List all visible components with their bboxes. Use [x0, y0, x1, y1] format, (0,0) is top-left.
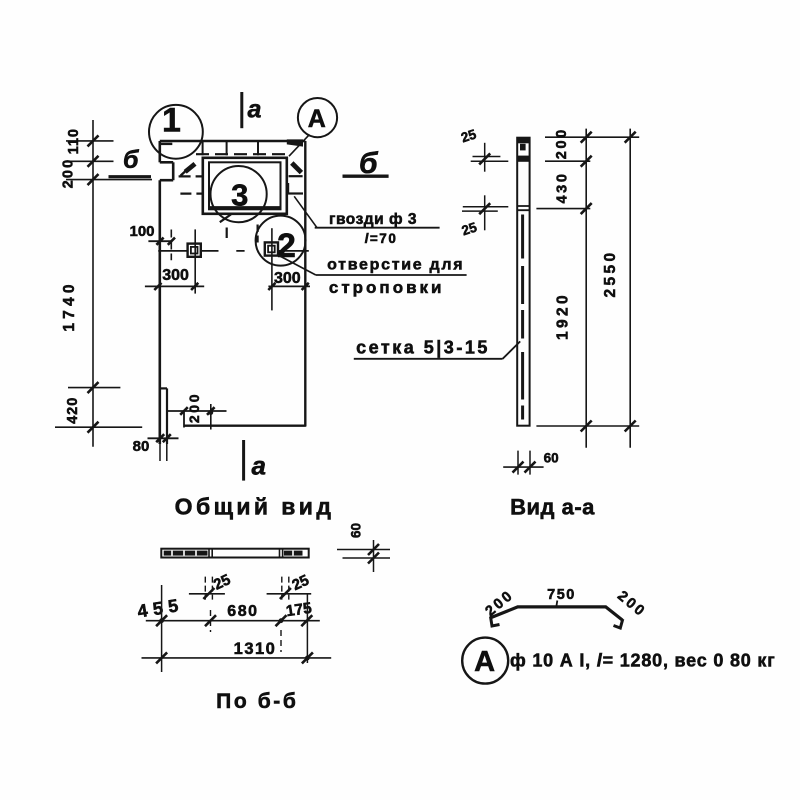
centerline of holes: [158, 250, 309, 252]
duct dashed left y176: [179, 175, 203, 177]
side bar top fill: [517, 138, 530, 144]
panel left edge lower: [159, 180, 162, 444]
right chain ticks: [581, 132, 636, 432]
bb dim 25 left line: [189, 593, 225, 595]
svg-text:отверстие для: отверстие для: [327, 257, 464, 274]
side bar band fill: [517, 156, 530, 162]
svg-text:Вид а-а: Вид а-а: [510, 495, 595, 520]
svg-text:l=70: l=70: [365, 231, 398, 246]
dim 25 no2 vertical: [484, 195, 486, 230]
mesh label underline: [354, 358, 503, 360]
svg-text:80: 80: [133, 438, 150, 455]
nails label underline: [315, 227, 440, 229]
bb ext right long: [306, 593, 308, 663]
right ext y137: [545, 136, 639, 138]
bb left mesh slits: [172, 551, 196, 556]
bb dim 60 ticks: [368, 544, 379, 564]
right dim line 2: [629, 129, 631, 448]
dim 300 left line: [145, 285, 204, 287]
duct dash right y176: [289, 175, 303, 177]
ext top edge: [66, 140, 114, 142]
dim 60 line: [503, 466, 543, 468]
svg-text:25: 25: [289, 572, 311, 594]
bb bar outline: [161, 549, 308, 558]
tab right edge: [166, 388, 168, 444]
left chain ticks: [88, 135, 99, 432]
svg-text:строповки: строповки: [329, 278, 445, 297]
section b right underline: [343, 174, 389, 177]
bb ext 281 dashed: [280, 630, 282, 652]
svg-text:60: 60: [544, 451, 559, 466]
bb dim line 2 ticks: [156, 652, 313, 663]
duct dashed left y193: [180, 193, 202, 195]
lifting hole 2 outer: [265, 242, 278, 255]
lintel tick 2: [226, 142, 228, 156]
dim 200 bottom ext: [210, 404, 212, 430]
opening outer rect: [203, 158, 287, 214]
svg-text:25: 25: [460, 219, 479, 238]
dim 25 no2 ext lines: [462, 207, 508, 211]
lintel dashed line: [196, 153, 289, 155]
svg-text:ф 10 А I, l= 1280, вес 0 80: ф 10 А I, l= 1280, вес 0 80 кг: [510, 651, 776, 671]
position circle A: [462, 638, 508, 684]
bb divider right: [280, 549, 283, 558]
bb right mesh fill: [284, 551, 303, 556]
nail mark bottom-left thin: [220, 214, 231, 222]
dim 25 no1 ext lines: [471, 157, 509, 162]
svg-text:a: a: [248, 96, 262, 124]
dim 60 verticals: [518, 451, 530, 475]
right ext y426: [536, 425, 639, 427]
svg-text:25: 25: [459, 126, 478, 145]
panel bottom step vertical: [183, 411, 185, 428]
notch top: [160, 161, 173, 164]
dim 100 line: [148, 240, 172, 242]
duct vertical dash right: [287, 183, 289, 193]
bent bar body: [490, 607, 622, 620]
svg-text:3: 3: [231, 178, 248, 213]
bb dim line 1: [146, 620, 320, 622]
svg-text:сетка 5|3-15: сетка 5|3-15: [356, 338, 490, 358]
right ext y208: [536, 208, 590, 210]
svg-text:455: 455: [136, 595, 185, 622]
side bar mesh dashes: [521, 215, 524, 420]
svg-text:2550: 2550: [602, 249, 619, 297]
leader from circle A: [289, 135, 309, 157]
svg-text:б: б: [123, 146, 140, 174]
section b left underline: [109, 175, 152, 178]
section a bottom line: [242, 440, 245, 481]
dim 80 oblique ticks: [156, 434, 171, 442]
corner nail patch: [287, 139, 303, 146]
section a top line: [240, 92, 243, 128]
dim 300 right line: [268, 285, 310, 287]
dim 100 ext dashed: [170, 230, 172, 261]
panel right edge: [304, 141, 306, 427]
bb dim line 1 dots: [159, 618, 164, 623]
dim 300 right ticks: [268, 283, 309, 290]
callout circle 1: [149, 105, 203, 159]
svg-text:300: 300: [274, 270, 301, 287]
svg-text:Общий вид: Общий вид: [175, 494, 335, 520]
lifting hole 1 inner: [191, 247, 198, 254]
dim 300 left ticks: [154, 283, 198, 290]
callout circle 2: [256, 216, 306, 266]
svg-text:гвозди ф 3: гвозди ф 3: [329, 211, 417, 228]
dim 60 ticks: [513, 462, 536, 473]
bb right mesh slit: [292, 551, 294, 556]
opening inner bottom thick: [209, 206, 281, 209]
bent bar left hook: [491, 617, 500, 627]
dim 100 ticks: [156, 238, 175, 245]
svg-text:200: 200: [60, 158, 76, 189]
nail mark left thick: [185, 164, 195, 172]
bb dim 25 left tick: [203, 588, 214, 599]
dim 25 no1 vertical: [484, 143, 486, 172]
ext notch top: [66, 160, 114, 162]
right dim line 1: [585, 129, 587, 448]
tab line thin extensions: [160, 444, 167, 461]
bb dim 60 ext lines: [337, 550, 390, 559]
svg-text:А: А: [474, 646, 495, 678]
bb dim 25 right line: [267, 593, 312, 595]
svg-text:А: А: [308, 105, 326, 133]
nail mark right thick: [292, 163, 302, 173]
lintel dash under top edge: [161, 143, 173, 145]
bb dim line 1 ticks: [156, 615, 312, 626]
svg-text:420: 420: [65, 397, 81, 424]
leader nails: [294, 196, 317, 227]
svg-text:100: 100: [129, 223, 154, 240]
side bar divider: [517, 206, 529, 210]
duct dash right y193: [287, 192, 303, 194]
panel bottom edge: [184, 425, 306, 427]
dim 200 bottom dot: [208, 410, 213, 415]
svg-text:1920: 1920: [555, 292, 572, 340]
bb dim 25 right tick: [280, 588, 291, 599]
dim 25 no2 tick: [479, 203, 490, 214]
side bar top inner mark: [520, 144, 526, 151]
panel top edge: [160, 140, 305, 143]
bb left mesh fill: [164, 551, 208, 556]
svg-text:1310: 1310: [234, 640, 277, 658]
svg-text:1: 1: [162, 102, 181, 140]
svg-text:200: 200: [186, 392, 202, 423]
hole 2 centerline vertical: [271, 228, 273, 310]
hole 1 centerline vertical: [194, 229, 196, 293]
bb divider left: [209, 549, 212, 558]
bb ext left long: [161, 585, 163, 672]
lintel tick 1: [202, 142, 204, 156]
dim 200 bottom line: [167, 410, 227, 412]
bb dim 25 right exts: [282, 577, 289, 600]
side bar outline: [517, 138, 529, 426]
svg-text:750: 750: [547, 587, 576, 603]
tab jog: [160, 387, 167, 389]
dim 750 tick: [556, 601, 557, 608]
svg-text:200: 200: [554, 127, 570, 159]
mesh label leader: [503, 341, 521, 358]
svg-text:680: 680: [227, 603, 258, 620]
callout circle A top: [298, 98, 337, 137]
hidden vertical dash 2: [257, 225, 259, 243]
left dim line: [92, 120, 94, 447]
lintel tick 3: [257, 142, 259, 156]
bb ext 210 dashed: [210, 610, 212, 632]
nail mark left thin: [181, 168, 189, 176]
ext notch bottom: [66, 179, 152, 181]
svg-text:175: 175: [285, 600, 313, 620]
svg-text:По б-б: По б-б: [216, 690, 298, 713]
panel left edge upper: [159, 141, 162, 162]
svg-text:1740: 1740: [61, 280, 78, 331]
svg-text:110: 110: [66, 128, 82, 154]
dim 80 tick line: [148, 437, 179, 439]
dim 25 no1 tick: [479, 153, 490, 164]
svg-text:б: б: [359, 147, 379, 180]
callout circle 3: [211, 166, 267, 222]
hidden vertical dash 1: [226, 228, 228, 239]
right ext y161: [545, 160, 590, 162]
ext 1740: [68, 387, 120, 389]
ext bottom: [55, 426, 142, 428]
bb dim 60 vertical: [373, 540, 375, 572]
sling hole underline: [316, 274, 467, 276]
bb dim line 2: [142, 657, 332, 659]
bent bar right hook: [614, 619, 623, 628]
notch bottom: [160, 179, 173, 182]
bb dim 25 left exts: [205, 577, 212, 600]
dim 200 bottom ticks: [180, 407, 214, 415]
svg-text:60: 60: [349, 523, 364, 538]
lifting hole 1 outer: [188, 244, 201, 257]
lifting hole 2 inner: [268, 246, 275, 253]
svg-text:25: 25: [211, 571, 233, 593]
bb dim line 2 dot: [305, 656, 310, 661]
notch right: [172, 162, 175, 180]
leader sling hole: [277, 255, 316, 276]
opening inner rect: [209, 162, 281, 209]
svg-text:430: 430: [555, 172, 571, 204]
svg-text:a: a: [252, 451, 266, 481]
svg-text:300: 300: [162, 267, 189, 284]
